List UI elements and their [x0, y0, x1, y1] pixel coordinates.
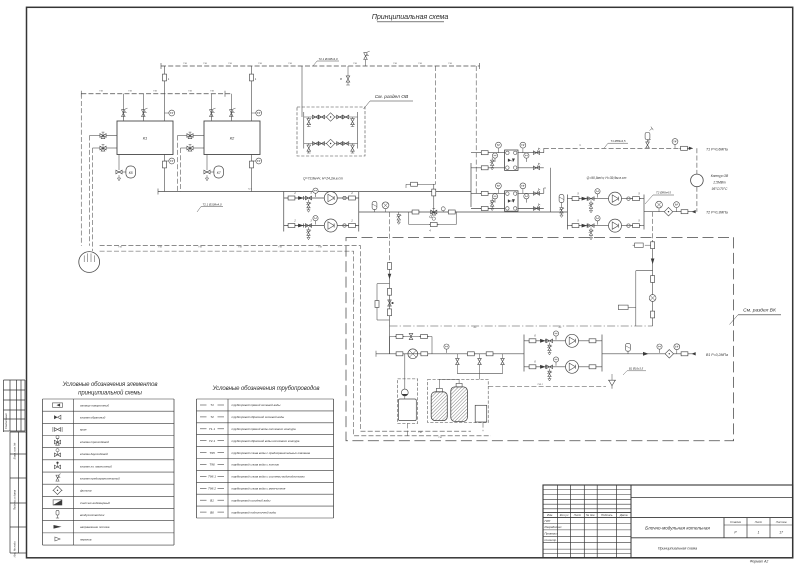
svg-text:затвор поворотный: затвор поворотный	[79, 403, 109, 407]
svg-text:клапан обратный: клапан обратный	[80, 416, 106, 420]
svg-text:клапан предохранительный: клапан предохранительный	[80, 476, 120, 480]
svg-text:Т2 P=0,3МПа: Т2 P=0,3МПа	[706, 211, 728, 215]
svg-text:Т1: Т1	[210, 403, 214, 407]
svg-text:В1 P=0,2МПа: В1 P=0,2МПа	[706, 353, 728, 357]
svg-text:К2: К2	[230, 136, 235, 141]
svg-text:трубопровод подпиточной воды: трубопровод подпиточной воды	[232, 510, 277, 514]
svg-text:кран: кран	[80, 428, 87, 432]
svg-text:Лист: Лист	[754, 520, 763, 524]
svg-text:Т2.1: Т2.1	[209, 439, 215, 443]
svg-text:трубопровод слива воды с котло: трубопровод слива воды с котлов	[232, 463, 280, 467]
svg-text:воздухоотводчик: воздухоотводчик	[80, 513, 105, 517]
svg-text:Т2.1 Ø108х4,0: Т2.1 Ø108х4,0	[318, 57, 338, 61]
svg-text:Т2.1: Т2.1	[248, 188, 253, 190]
svg-text:трубопровод слива воды с систе: трубопровод слива воды с системы водопод…	[232, 475, 306, 479]
svg-text:Взам. инв. №: Взам. инв. №	[13, 443, 17, 460]
svg-text:17: 17	[779, 531, 783, 535]
svg-text:К7: К7	[217, 171, 221, 175]
svg-text:Подпись: Подпись	[601, 513, 613, 517]
svg-text:Проверил: Проверил	[545, 532, 559, 536]
svg-text:Н.контр.: Н.контр.	[545, 538, 557, 542]
svg-text:Принципиальная схема: Принципиальная схема	[658, 547, 697, 551]
svg-text:В1: В1	[210, 498, 214, 502]
svg-text:трубопровод исходной воды: трубопровод исходной воды	[232, 498, 272, 502]
svg-text:перелив: перелив	[80, 537, 92, 541]
svg-text:См. раздел ОВ: См. раздел ОВ	[375, 94, 409, 100]
svg-text:ГИП: ГИП	[545, 519, 552, 523]
svg-text:Дата: Дата	[619, 513, 628, 517]
svg-text:Условные обозначения элементов: Условные обозначения элементов	[62, 382, 158, 388]
svg-text:Условные обозначения трубопров: Условные обозначения трубопроводов	[212, 386, 320, 392]
svg-text:Формат А2: Формат А2	[750, 560, 769, 564]
svg-text:клапан двухходовой: клапан двухходовой	[80, 452, 108, 456]
svg-text:Т2: Т2	[210, 415, 214, 419]
svg-text:Q=90,9м³/ч; Н=39,9м.в.ст: Q=90,9м³/ч; Н=39,9м.в.ст	[587, 176, 627, 180]
svg-text:95°С/70°С: 95°С/70°С	[712, 187, 728, 191]
svg-text:Блочно-модульная котельная: Блочно-модульная котельная	[645, 526, 710, 531]
svg-text:направление потока: направление потока	[80, 525, 110, 529]
svg-text:Т1 Ø89х4,5: Т1 Ø89х4,5	[610, 139, 625, 143]
svg-text:К1: К1	[143, 136, 148, 141]
svg-text:Т98.1: Т98.1	[537, 384, 543, 386]
svg-text:Лист: Лист	[573, 513, 582, 517]
svg-text:Разработал: Разработал	[545, 525, 562, 529]
svg-text:Изм.: Изм.	[547, 513, 553, 517]
svg-text:Т1 P=0,6МПа: Т1 P=0,6МПа	[706, 148, 728, 152]
svg-text:счетчик водомерный: счетчик водомерный	[80, 501, 110, 505]
svg-text:Инв. № подл.: Инв. № подл.	[13, 540, 17, 557]
svg-text:клапан эл. магнитный: клапан эл. магнитный	[80, 464, 112, 468]
svg-text:трубопровод слива воды с предо: трубопровод слива воды с предохранительн…	[232, 451, 311, 455]
svg-text:Кол.уч: Кол.уч	[560, 513, 569, 517]
svg-text:1: 1	[758, 531, 760, 535]
svg-text:В1 Ø16х3,5: В1 Ø16х3,5	[629, 366, 644, 370]
svg-text:2,5МВт: 2,5МВт	[712, 181, 726, 185]
svg-text:Q=73,8м³/ч; Н=24,2м.в.ст: Q=73,8м³/ч; Н=24,2м.в.ст	[303, 176, 343, 180]
svg-text:Принципиальная схема: Принципиальная схема	[372, 12, 449, 21]
svg-text:Т98.2: Т98.2	[208, 487, 216, 491]
svg-text:Стадия: Стадия	[730, 520, 741, 524]
svg-text:Согласовано: Согласовано	[4, 413, 8, 429]
svg-text:Контур ОВ: Контур ОВ	[711, 174, 729, 178]
svg-text:Т2.1 Ø108х4,0: Т2.1 Ø108х4,0	[202, 202, 222, 206]
svg-text:Т98.1: Т98.1	[208, 475, 216, 479]
svg-text:Листов: Листов	[775, 520, 787, 524]
svg-text:трубопровод обратной сетевой в: трубопровод обратной сетевой воды	[232, 415, 286, 419]
svg-text:Подпись и дата: Подпись и дата	[13, 489, 17, 510]
svg-text:трубопровод обратной воды котл: трубопровод обратной воды котлового конт…	[232, 439, 300, 443]
svg-text:К5: К5	[129, 171, 133, 175]
svg-text:№ док.: № док.	[586, 513, 596, 517]
svg-text:Т2 Ø89х4,5: Т2 Ø89х4,5	[656, 191, 671, 195]
svg-text:Т1.1: Т1.1	[209, 427, 215, 431]
svg-text:В6: В6	[210, 510, 214, 514]
svg-text:трубопровод прямой сетевой вод: трубопровод прямой сетевой воды	[232, 403, 282, 407]
svg-text:Т95: Т95	[209, 451, 215, 455]
svg-text:трубопровод прямой воды котлов: трубопровод прямой воды котлового контур…	[232, 427, 297, 431]
svg-text:Т96: Т96	[209, 463, 215, 467]
svg-text:фильтр: фильтр	[80, 489, 92, 493]
svg-text:трубопровод слива воды с умягч: трубопровод слива воды с умягчителя	[232, 487, 286, 491]
svg-text:клапан трехходовой: клапан трехходовой	[80, 440, 109, 444]
svg-text:См. раздел ВК: См. раздел ВК	[743, 308, 777, 314]
svg-text:принципиальной схемы: принципиальной схемы	[78, 390, 142, 397]
